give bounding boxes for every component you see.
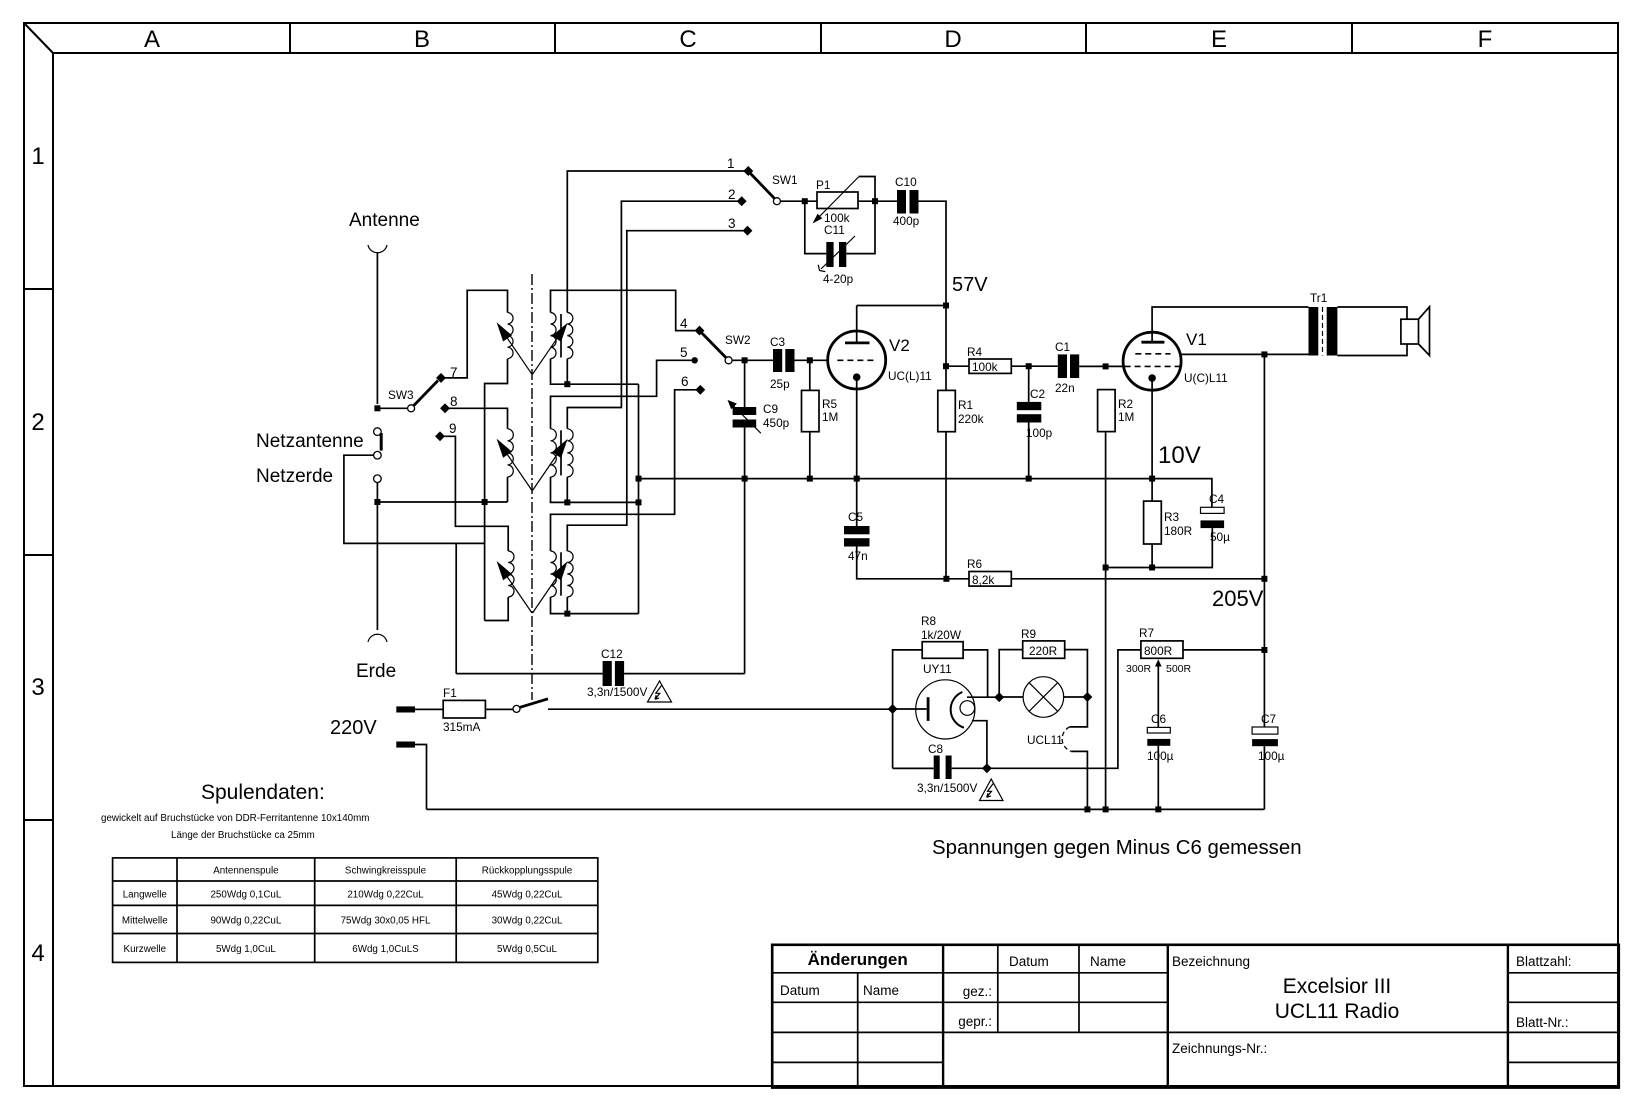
node R5 top: [807, 357, 813, 363]
svg-text:1: 1: [31, 143, 44, 170]
column separator E/F: [1351, 23, 1353, 53]
svg-text:300R: 300R: [1126, 663, 1152, 675]
column separator C/D: [820, 23, 822, 53]
capacitor C12 right wire: [624, 673, 745, 675]
variable capacitor C9: [733, 407, 757, 415]
wire C11 branch: [805, 201, 875, 253]
core line coil 2: [560, 430, 562, 475]
wire switch to rectifier: [548, 708, 893, 710]
arrow variometer R1: [533, 337, 559, 375]
svg-text:Datum: Datum: [780, 983, 820, 998]
svg-text:C4: C4: [1209, 492, 1225, 506]
wire bottom bus: [427, 808, 1265, 810]
arrow variometer L2: [506, 453, 532, 491]
wire C7 to bus corner: [1263, 746, 1265, 809]
wire 205V rail vertical: [1263, 354, 1265, 727]
UY11 cathode arc: [951, 692, 964, 728]
resistor R8: [922, 642, 963, 659]
svg-text:180R: 180R: [1164, 524, 1192, 538]
wire cathode bus: [639, 479, 1212, 508]
capacitor C2: [1028, 366, 1030, 478]
capacitor C10: [897, 190, 906, 214]
pin 8 contact: [440, 403, 450, 413]
wire heater bottom to C8: [972, 721, 987, 769]
node C9 top: [742, 357, 748, 363]
capacitor C3: [773, 349, 782, 372]
V2 cathode dot: [853, 373, 861, 381]
wire A1/B1 bottoms: [551, 359, 639, 385]
column separator A/B: [289, 23, 291, 53]
wire V1 screen to 205V rail: [1181, 353, 1309, 355]
svg-text:R5: R5: [822, 397, 838, 411]
wire V1 anode to Tr1: [1152, 307, 1308, 342]
UY11 anode plate: [927, 697, 930, 721]
svg-text:100k: 100k: [972, 360, 998, 374]
pin 2 contact: [737, 196, 747, 206]
node chassis bus left end: [374, 499, 380, 505]
wire pin1 to B1 top: [567, 171, 748, 313]
svg-text:R9: R9: [1021, 627, 1036, 641]
svg-text:3: 3: [31, 674, 44, 701]
fuse F1: [443, 700, 485, 718]
terminal circle Netzerde: [374, 475, 382, 483]
svg-text:1M: 1M: [822, 410, 838, 424]
svg-text:Mittelwelle: Mittelwelle: [122, 916, 168, 927]
wire fuse to switch: [485, 708, 513, 710]
switch mains pivot: [513, 705, 520, 712]
node R3 bottom: [1149, 565, 1155, 571]
UCL11 heater arc: [1062, 727, 1071, 752]
pin 7 contact: [436, 373, 446, 383]
wire V1 cathode down: [1151, 381, 1153, 501]
pin 5 contact: [692, 357, 698, 363]
svg-text:C2: C2: [1030, 387, 1045, 401]
node R6 on 205V rail: [1261, 576, 1267, 582]
resistor R1: [938, 390, 956, 431]
svg-text:Erde: Erde: [356, 661, 396, 682]
wire R7 tap to C6: [1157, 667, 1159, 728]
resistor R5: [809, 360, 811, 478]
switch SW1 blade: [751, 174, 775, 199]
svg-text:315mA: 315mA: [443, 720, 481, 734]
svg-text:500R: 500R: [1166, 663, 1192, 675]
node B2 bottom: [564, 499, 570, 505]
V1 anode plate: [1141, 341, 1164, 344]
wire pin2 to B2 top: [567, 201, 741, 429]
C11 trimmer arrow: [821, 236, 855, 269]
warning triangle 2: [980, 779, 1004, 801]
svg-text:C: C: [679, 26, 696, 53]
link bar Netzantenne: [380, 433, 383, 451]
potentiometer P1: [817, 192, 858, 209]
R7 tap arrow: [1155, 659, 1162, 666]
svg-text:Excelsior III: Excelsior III: [1283, 975, 1392, 998]
svg-text:SW1: SW1: [772, 173, 798, 187]
node R5 bottom on bus: [807, 476, 813, 482]
arrow variometer R2: [533, 453, 559, 491]
wire cathode bottom link: [1106, 528, 1213, 567]
capacitor C6 electrolytic: [1147, 727, 1170, 733]
wire C1 to V1 grid: [1079, 365, 1124, 367]
svg-text:47n: 47n: [848, 549, 868, 563]
capacitor C4 electrolytic: [1201, 507, 1225, 513]
svg-text:V1: V1: [1186, 330, 1207, 349]
title block horizontals: [772, 972, 1619, 974]
svg-text:3,3n/1500V: 3,3n/1500V: [587, 685, 647, 699]
svg-text:C3: C3: [770, 335, 786, 349]
svg-text:Tr1: Tr1: [1310, 291, 1327, 305]
switch SW1 pivot: [773, 198, 780, 205]
drawing frame corner diagonal: [24, 23, 53, 53]
wire R8 loop left: [893, 650, 923, 769]
node mains / rectifier anode: [888, 704, 898, 714]
P1 wiper arrow: [817, 177, 859, 220]
transformer Tr1 secondary: [1327, 307, 1338, 356]
svg-text:R2: R2: [1118, 397, 1133, 411]
svg-text:25p: 25p: [770, 377, 790, 391]
svg-text:Blatt-Nr.:: Blatt-Nr.:: [1516, 1015, 1569, 1030]
pin 9 contact: [435, 431, 445, 441]
svg-text:gewickelt auf Bruchstücke von: gewickelt auf Bruchstücke von DDR-Ferrit…: [101, 813, 369, 824]
antenna symbol: [368, 245, 387, 253]
svg-text:UY11: UY11: [923, 662, 952, 676]
svg-text:UCL11 Radio: UCL11 Radio: [1275, 1000, 1400, 1023]
svg-text:100p: 100p: [1026, 426, 1053, 440]
title block thick verticals: [943, 945, 1508, 1088]
switch SW2 pivot: [725, 357, 732, 364]
svg-text:F: F: [1478, 26, 1493, 53]
node V1 cathode on bus: [1149, 476, 1155, 482]
svg-text:C12: C12: [601, 647, 623, 661]
svg-text:4: 4: [31, 940, 44, 967]
node P1 right: [872, 198, 878, 204]
svg-text:gez.:: gez.:: [963, 984, 992, 999]
svg-text:205V: 205V: [1212, 586, 1264, 611]
wire lamp leads: [999, 696, 1087, 698]
V1 control grid dashed: [1125, 365, 1180, 367]
node C5/R1/R6: [943, 576, 949, 582]
wire pin4 to A1 top: [551, 290, 700, 330]
node C6 on bus: [1155, 806, 1161, 812]
resistor R6: [946, 578, 969, 580]
svg-text:Länge der Bruchstücke ca 25mm: Länge der Bruchstücke ca 25mm: [171, 830, 315, 841]
svg-text:SW2: SW2: [725, 333, 751, 347]
svg-text:Rückkopplungsspule: Rückkopplungsspule: [482, 866, 573, 877]
node lamp right: [1082, 692, 1092, 702]
svg-text:8: 8: [450, 394, 458, 409]
svg-text:1M: 1M: [1118, 410, 1134, 424]
wire C3 to V2 grid: [795, 359, 828, 361]
coil data table frame: [113, 858, 598, 963]
svg-text:10V: 10V: [1158, 442, 1201, 469]
node R2 line / cathode link: [1103, 565, 1109, 571]
svg-text:800R: 800R: [1144, 644, 1172, 658]
tube V2 envelope: [828, 331, 886, 389]
svg-text:Antennenspule: Antennenspule: [213, 866, 279, 877]
svg-text:C7: C7: [1261, 712, 1276, 726]
core line coil 1: [560, 314, 562, 358]
wire L1 bottom: [485, 359, 508, 621]
V2 grid dashed: [837, 359, 876, 361]
node 57V anode tee: [943, 303, 949, 309]
svg-text:Schwingkreisspule: Schwingkreisspule: [345, 866, 427, 877]
svg-text:45Wdg 0,22CuL: 45Wdg 0,22CuL: [492, 890, 563, 901]
node R2 line on bus: [1103, 806, 1109, 812]
tube V1 envelope: [1123, 332, 1181, 390]
wire R8 right: [963, 650, 988, 697]
wire chassis bus left: [377, 501, 507, 503]
svg-text:C11: C11: [824, 223, 845, 237]
svg-text:450p: 450p: [763, 416, 790, 430]
pin 1 contact: [743, 166, 753, 176]
warning triangle 1: [648, 681, 672, 702]
svg-text:R7: R7: [1139, 626, 1154, 640]
wire R4 to C1: [1011, 365, 1058, 367]
node C2 top: [1026, 363, 1032, 369]
terminal bar mains L: [396, 706, 415, 712]
node L1 bottom on chassis bus: [482, 499, 488, 505]
UY11 heater circle: [960, 701, 975, 716]
coil L3 antenna winding KW: [508, 551, 514, 597]
svg-text:250Wdg 0,1CuL: 250Wdg 0,1CuL: [210, 890, 281, 901]
svg-text:Langwelle: Langwelle: [123, 890, 168, 901]
node C2 bottom on bus: [1026, 476, 1032, 482]
svg-text:8,2k: 8,2k: [972, 573, 994, 587]
wire netz branch to mains side: [344, 455, 485, 543]
svg-text:220R: 220R: [1029, 644, 1057, 658]
row separator 2/3: [24, 554, 53, 556]
wire A3/B3 bottoms: [551, 597, 639, 614]
drawing frame inner top border: [53, 52, 1618, 54]
svg-text:Spulendaten:: Spulendaten:: [201, 781, 325, 804]
svg-text:22n: 22n: [1055, 381, 1075, 395]
arrow variometer R3: [533, 575, 559, 613]
svg-text:gepr.:: gepr.:: [958, 1014, 992, 1029]
mechanical link dash-dot line: [531, 274, 533, 700]
svg-text:R1: R1: [958, 398, 973, 412]
wire antenna lead: [376, 252, 378, 404]
column separator D/E: [1085, 23, 1087, 53]
svg-text:5Wdg 1,0CuL: 5Wdg 1,0CuL: [216, 944, 276, 955]
svg-text:UC(L)11: UC(L)11: [888, 369, 932, 383]
svg-text:220k: 220k: [958, 412, 984, 426]
coil A1 tuning winding LW: [551, 313, 557, 359]
svg-text:A: A: [144, 26, 160, 53]
svg-text:4-20p: 4-20p: [823, 272, 854, 286]
wire secondary chassis vertical: [638, 384, 640, 613]
switch SW2 blade: [702, 333, 727, 358]
terminal circle Netzantenne upper: [374, 428, 382, 436]
wire C6 to bus: [1157, 746, 1159, 810]
capacitor C7 electrolytic: [1252, 727, 1278, 734]
coil B3 feedback winding KW: [567, 551, 573, 597]
terminal bar mains N: [396, 742, 415, 748]
svg-text:P1: P1: [816, 178, 830, 192]
column separator B/C: [554, 23, 556, 53]
svg-text:1: 1: [727, 156, 735, 171]
svg-text:220V: 220V: [330, 717, 377, 739]
svg-text:U(C)L11: U(C)L11: [1184, 371, 1228, 385]
svg-text:400p: 400p: [893, 214, 920, 228]
svg-text:Zeichnungs-Nr.:: Zeichnungs-Nr.:: [1172, 1041, 1267, 1056]
wire R6 to 205V rail: [1011, 578, 1264, 580]
title block thin verticals: [858, 945, 1079, 1088]
transformer Tr1 core dashed: [1322, 307, 1324, 356]
capacitor C5: [857, 547, 947, 579]
svg-text:Name: Name: [1090, 954, 1126, 969]
pin 3 contact: [743, 226, 753, 236]
V1 screen grid dashed: [1135, 353, 1170, 355]
svg-text:90Wdg 0,22CuL: 90Wdg 0,22CuL: [210, 916, 281, 927]
svg-text:Bezeichnung: Bezeichnung: [1172, 954, 1250, 969]
svg-text:Änderungen: Änderungen: [808, 950, 908, 969]
svg-text:Netzantenne: Netzantenne: [256, 431, 364, 452]
arrow variometer L3: [506, 575, 532, 613]
svg-text:5: 5: [680, 345, 688, 360]
node chassis vertical / bus502: [636, 499, 642, 505]
svg-text:F1: F1: [443, 686, 457, 700]
node R7 right on rail: [1261, 647, 1267, 653]
svg-text:B: B: [414, 26, 430, 53]
capacitor C12 left wire: [456, 673, 602, 675]
svg-text:Antenne: Antenne: [349, 210, 420, 231]
wire SW2 to C3: [732, 359, 773, 361]
wire pin6 to A3 top: [551, 390, 701, 551]
coil B1 feedback winding LW: [567, 313, 573, 359]
svg-text:75Wdg 30x0,05 HFL: 75Wdg 30x0,05 HFL: [341, 916, 431, 927]
resistor R3: [1144, 501, 1162, 544]
svg-text:C9: C9: [763, 402, 778, 416]
svg-text:4: 4: [680, 316, 688, 331]
svg-text:57V: 57V: [952, 274, 988, 296]
wire V2 cathode down: [856, 381, 858, 527]
tube UY11 envelope: [916, 680, 975, 739]
svg-text:C6: C6: [1151, 712, 1167, 726]
svg-text:C5: C5: [848, 510, 864, 524]
svg-text:V2: V2: [889, 336, 910, 355]
resistor R4: [946, 365, 969, 367]
svg-text:5Wdg 0,5CuL: 5Wdg 0,5CuL: [497, 944, 557, 955]
terminal circle Netzantenne lower: [374, 451, 382, 459]
transformer Tr1 primary: [1309, 307, 1319, 356]
coil A2 tuning winding MW: [551, 429, 557, 477]
wire L2 bottom: [507, 477, 509, 502]
row separator 1/2: [24, 288, 53, 290]
wire heater top: [967, 696, 999, 698]
node R2 top: [1103, 363, 1109, 369]
wire Tr1 secondary to speaker: [1337, 307, 1407, 356]
wire SW3 common stub: [377, 407, 407, 409]
resistor R7: [1141, 641, 1183, 658]
wire netz vertical to C12 line: [455, 543, 457, 673]
svg-text:D: D: [944, 26, 961, 53]
svg-text:Datum: Datum: [1009, 954, 1049, 969]
svg-text:1k/20W: 1k/20W: [921, 628, 962, 642]
coil L2 antenna winding MW: [508, 429, 514, 477]
wire C9 branch vertical: [744, 360, 746, 673]
earth symbol arc: [368, 634, 387, 642]
resistor R2: [1098, 390, 1116, 432]
wire P1 right: [858, 200, 897, 202]
switch SW3 blade: [414, 381, 438, 406]
drawing frame inner left border: [52, 53, 54, 1086]
node V2 cathode on bus: [854, 476, 860, 482]
UY11 anode wire: [893, 708, 927, 710]
capacitor C1: [1058, 354, 1067, 378]
capacitor C12: [603, 661, 612, 686]
wire C10 to 57V line: [919, 201, 947, 390]
wire B+ to R7: [987, 650, 1141, 768]
svg-text:2: 2: [728, 187, 736, 202]
arrow variometer L1: [506, 336, 532, 374]
wire V2 anode: [857, 305, 946, 307]
wire pin9 to L3 top: [440, 436, 508, 551]
node P1 left: [802, 198, 808, 204]
pin 6 contact: [695, 385, 705, 395]
node heater chain on bus: [1084, 806, 1090, 812]
C9 arrow: [732, 404, 761, 433]
core line coil 3: [560, 552, 562, 595]
svg-text:SW3: SW3: [388, 388, 414, 402]
svg-text:3: 3: [728, 216, 736, 231]
capacitor C8: [893, 767, 987, 769]
title block outer frame: [772, 945, 1619, 1088]
svg-text:30Wdg 0,22CuL: 30Wdg 0,22CuL: [492, 916, 563, 927]
switch SW3 pivot: [408, 405, 415, 412]
node heater top: [994, 692, 1004, 702]
node B3 bottom: [564, 611, 570, 617]
wire L3 bottom: [485, 597, 509, 621]
resistor R9: [1023, 641, 1065, 658]
wire heater chain down: [1070, 697, 1088, 727]
wire mains L to fuse: [415, 708, 443, 710]
row separator 3/4: [24, 819, 53, 821]
svg-text:C10: C10: [895, 175, 917, 189]
svg-text:R3: R3: [1164, 510, 1180, 524]
node SW3 common: [374, 405, 380, 411]
svg-text:Blattzahl:: Blattzahl:: [1516, 954, 1572, 969]
svg-text:UCL11: UCL11: [1027, 733, 1063, 747]
node R4 tee: [943, 363, 949, 369]
svg-text:C1: C1: [1055, 340, 1070, 354]
svg-text:R6: R6: [967, 557, 983, 571]
svg-text:3,3n/1500V: 3,3n/1500V: [917, 781, 977, 795]
svg-text:Spannungen gegen Minus C6 geme: Spannungen gegen Minus C6 gemessen: [932, 837, 1302, 859]
coil B2 feedback winding MW: [567, 429, 573, 477]
wire pin3 to B3 top: [567, 231, 747, 551]
wire earth lead: [376, 483, 378, 631]
node C9 line on bus: [742, 476, 748, 482]
wire mains N to bottom bus: [415, 745, 427, 810]
svg-text:100µ: 100µ: [1147, 749, 1174, 763]
svg-text:50µ: 50µ: [1210, 530, 1230, 544]
wire heater chain to bus: [1071, 751, 1087, 809]
svg-text:Kurzwelle: Kurzwelle: [124, 944, 167, 955]
wire pin7 to L1 top: [441, 290, 508, 378]
node C8 right: [982, 763, 992, 773]
dial lamp: [1023, 677, 1064, 718]
speaker: [1401, 319, 1419, 344]
V2 anode plate: [845, 341, 870, 344]
svg-text:R8: R8: [921, 614, 937, 628]
svg-text:E: E: [1211, 26, 1227, 53]
svg-text:C8: C8: [928, 742, 944, 756]
wire A2/B2 bottoms: [551, 477, 639, 503]
svg-text:6: 6: [681, 374, 689, 389]
wire pin5 to A2 top: [551, 360, 695, 429]
wire SW1 to P1: [780, 200, 817, 202]
coil L1 antenna winding LW: [508, 313, 514, 359]
